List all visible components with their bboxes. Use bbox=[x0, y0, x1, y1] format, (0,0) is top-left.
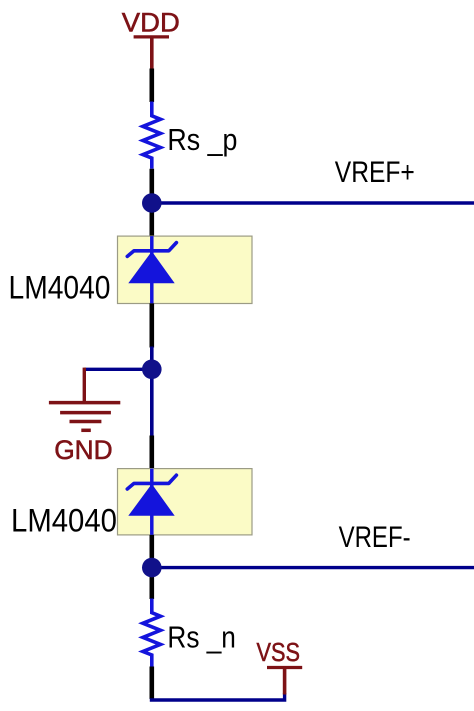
wire navy to box2 bbox=[150, 436, 155, 469]
svg-text:VDD: VDD bbox=[122, 8, 180, 38]
svg-text:GND: GND bbox=[54, 435, 112, 465]
svg-text:Rs _p: Rs _p bbox=[167, 122, 237, 157]
svg-text:VREF-: VREF- bbox=[339, 521, 411, 554]
wire bottom net to VSS bbox=[150, 693, 285, 700]
wire VREF+ bbox=[152, 201, 474, 204]
ground symbol bbox=[49, 368, 120, 431]
wire VDD to Rs_p bbox=[150, 69, 155, 103]
highlight box LM4040 1 bbox=[118, 236, 253, 303]
highlight box LM4040 2 bbox=[118, 469, 253, 535]
node GND junction bbox=[142, 360, 162, 380]
power symbol VDD bbox=[134, 37, 169, 71]
wire Rs_p to node VREF+ bbox=[150, 169, 155, 236]
svg-text:LM4040: LM4040 bbox=[9, 269, 111, 305]
wire navy vertical through GND node bbox=[150, 347, 154, 436]
svg-text:Rs _n: Rs _n bbox=[167, 620, 236, 655]
zener diode D2 LM4040 bbox=[127, 469, 176, 535]
svg-text:LM4040: LM4040 bbox=[11, 502, 117, 538]
wire VREF- bbox=[152, 566, 474, 569]
node VREF- junction bbox=[142, 558, 162, 578]
power symbol VSS bbox=[267, 668, 302, 695]
svg-text:VREF+: VREF+ bbox=[335, 156, 415, 189]
wire node to ground bbox=[84, 368, 152, 371]
wire D1 to navy section bbox=[150, 303, 155, 347]
resistor Rs_n bbox=[143, 599, 161, 667]
svg-text:VSS: VSS bbox=[257, 637, 301, 667]
resistor Rs_p bbox=[143, 102, 161, 169]
zener diode D1 LM4040 bbox=[127, 236, 176, 303]
node VREF+ junction bbox=[142, 193, 162, 213]
wire Rs_n down to bottom corner bbox=[150, 667, 155, 700]
wire D2 to node VREF- bbox=[150, 535, 155, 599]
